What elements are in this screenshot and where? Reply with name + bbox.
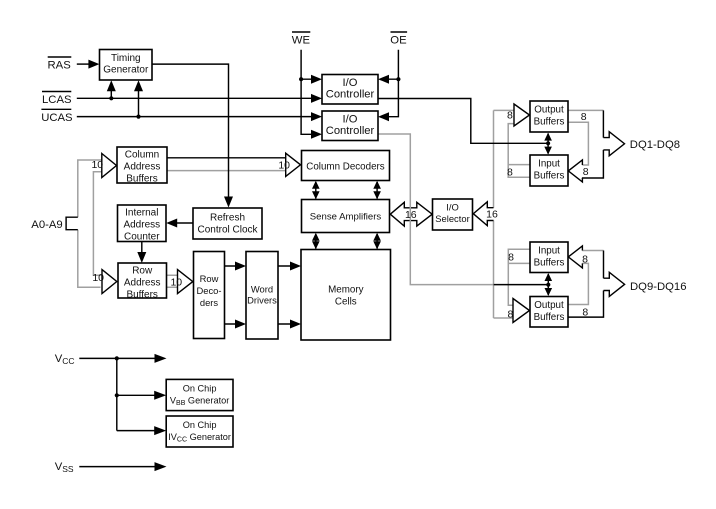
block memory cells (301, 250, 391, 341)
svg-text:Timing: Timing (111, 53, 141, 64)
arrowhead RAS into timing generator (88, 60, 99, 69)
svg-text:Address: Address (124, 161, 161, 172)
wire DQ1-DQ8 stems (582, 110, 604, 178)
block refresh control clock (193, 208, 262, 239)
wire bus to bottom output buffers (494, 317, 514, 319)
svg-text:8: 8 (582, 253, 588, 265)
svg-text:8: 8 (581, 111, 587, 123)
block output buffers top (530, 101, 568, 132)
arrowhead WE into I/O controller 2 (311, 130, 322, 139)
bus arrow 16 between Sense Amplifiers and I/O Selector (390, 202, 432, 226)
block on chip IVCC generator (166, 416, 233, 447)
wire A0-A9 bus inner (93, 172, 102, 276)
svg-text:Deco-: Deco- (196, 285, 221, 296)
arrowhead row decoders into word drivers lower (235, 320, 246, 329)
wire LCAS line (77, 91, 312, 98)
bus arrow 8 into top output buffers (514, 104, 530, 126)
svg-text:10: 10 (91, 159, 103, 171)
double arrowheads column decoders / sense amplifiers right (373, 181, 381, 189)
svg-text:Cells: Cells (335, 297, 357, 308)
arrowhead VCC into IVCC generator (154, 426, 166, 435)
svg-text:I/O: I/O (446, 201, 459, 212)
svg-text:Memory: Memory (328, 285, 363, 296)
pin arrow DQ1-DQ8 (603, 132, 624, 156)
svg-text:10: 10 (170, 276, 182, 288)
arrowhead UCAS into timing generator (134, 80, 143, 91)
svg-text:8: 8 (582, 307, 588, 319)
svg-text:8: 8 (508, 252, 514, 264)
wire DQ9-DQ16 stems (568, 251, 604, 318)
block output buffers bottom (530, 297, 568, 328)
block internal address counter (118, 205, 167, 242)
bus arrow 10 into row decoders (178, 270, 193, 294)
svg-text:UCAS: UCAS (41, 112, 73, 124)
wire VSS rail (79, 466, 155, 468)
block column address buffers (117, 147, 167, 183)
double arrowheads top buffer pair (544, 133, 552, 141)
block input buffers bottom (530, 242, 568, 273)
svg-text:8: 8 (507, 110, 513, 122)
svg-text:DQ9-DQ16: DQ9-DQ16 (630, 281, 687, 293)
wire refresh control clock to internal address counter (176, 222, 193, 224)
svg-text:Word: Word (251, 284, 273, 295)
wire OE line (388, 50, 398, 117)
svg-text:10: 10 (278, 160, 290, 172)
arrowhead OE into I/O controller 1 (378, 75, 389, 84)
arrowhead internal address counter into row address buffers (137, 252, 146, 263)
junction dot WE branch (299, 77, 303, 81)
svg-text:On Chip: On Chip (183, 420, 217, 430)
wire I/O controller 1 output (378, 99, 548, 144)
block word drivers (246, 252, 278, 340)
wire bottom output buffers loopback (568, 263, 588, 304)
svg-text:Control Clock: Control Clock (197, 224, 258, 235)
svg-text:Output: Output (534, 105, 564, 116)
svg-text:Sense Amplifiers: Sense Amplifiers (310, 212, 382, 223)
junction dot VCC lower (115, 393, 119, 397)
bus arrow 10 into column decoders (286, 153, 301, 176)
junction dot UCAS branch (136, 115, 140, 119)
wire row address bus edges (167, 275, 178, 287)
double arrowheads bottom buffer pair (545, 273, 553, 281)
bus arrow 10 into row address buffers (102, 270, 117, 294)
svg-text:Controller: Controller (326, 125, 375, 137)
svg-text:8: 8 (507, 308, 513, 320)
junction dot top buffer control (546, 141, 550, 145)
svg-text:On Chip: On Chip (183, 383, 217, 393)
block I/O controller 1 (322, 75, 378, 105)
bus arrow 10 into column address buffers (102, 154, 117, 178)
svg-text:Buffers: Buffers (126, 173, 158, 184)
double arrowheads sense amplifiers / memory cells left (312, 233, 320, 241)
arrowhead OE into I/O controller 2 (378, 112, 389, 121)
svg-text:8: 8 (583, 166, 589, 178)
svg-text:Buffers: Buffers (534, 312, 565, 323)
wire to bottom buffer pair junction (494, 284, 549, 286)
wire WE line (301, 50, 312, 135)
block row decoders (194, 252, 225, 339)
bus arrow 8 into top input buffers (568, 160, 582, 182)
block I/O controller 2 (322, 111, 378, 141)
block row address buffers (118, 263, 167, 298)
svg-text:Column Decoders: Column Decoders (306, 161, 385, 172)
wire tap to bottom input buffers (508, 249, 529, 305)
svg-text:Counter: Counter (124, 231, 160, 242)
wire double arrow shaft top buffers (547, 134, 549, 154)
arrowhead LCAS into timing generator (107, 80, 116, 91)
svg-text:Buffers: Buffers (534, 258, 565, 269)
wire column address bus upper edge (167, 157, 286, 159)
arrowhead WE into I/O controller 1 (311, 75, 322, 84)
svg-text:Column: Column (125, 149, 159, 160)
arrowhead timing generator into refresh control clock (224, 197, 233, 208)
wire row decoders to word drivers (225, 266, 237, 324)
svg-text:Drivers: Drivers (247, 295, 277, 306)
wire RAS input (77, 63, 89, 65)
wire tap to top input buffers (508, 124, 529, 178)
bus arrow 8 into bottom input buffers (568, 246, 582, 268)
wire double arrow shafts sense amplifiers / memory cells (316, 234, 377, 249)
wire double arrow shaft bottom buffers (547, 274, 549, 295)
wire bus to top output buffers (494, 109, 515, 111)
block column decoders (302, 151, 390, 181)
svg-text:16: 16 (486, 209, 498, 221)
arrowhead word drivers into memory cells lower (290, 320, 301, 329)
wire double arrow shafts column decoders / sense amplifiers (316, 182, 377, 199)
bus arrow 16 into I/O selector right (473, 202, 493, 226)
svg-text:Buffers: Buffers (126, 289, 158, 300)
wire internal address counter to row address buffers (141, 242, 143, 254)
arrowhead word drivers into memory cells upper (290, 262, 301, 271)
arrowhead VCC rail (155, 354, 167, 363)
svg-text:ders: ders (200, 297, 219, 308)
wire UCAS line (77, 91, 312, 117)
bus arrow 8 into bottom output buffers (513, 299, 530, 323)
svg-text:Output: Output (534, 300, 564, 311)
double arrowheads column decoders / sense amplifiers left (312, 181, 320, 189)
svg-text:RAS: RAS (48, 59, 72, 71)
svg-text:I/O: I/O (343, 114, 358, 126)
svg-text:10: 10 (92, 272, 104, 284)
svg-text:Selector: Selector (435, 213, 469, 224)
svg-text:Buffers: Buffers (534, 117, 565, 128)
svg-text:OE: OE (390, 35, 407, 47)
svg-text:16: 16 (405, 209, 417, 221)
svg-text:Controller: Controller (326, 89, 375, 101)
svg-text:8: 8 (507, 166, 513, 178)
arrowhead refresh clock into internal address counter (166, 219, 177, 228)
wire VCC rail (79, 358, 155, 430)
junction dot OE branch (396, 77, 400, 81)
svg-text:Generator: Generator (103, 65, 149, 76)
svg-text:Row: Row (132, 265, 153, 276)
arrowhead VCC into VBB generator (154, 391, 166, 400)
arrowhead LCAS into I/O controller 1 (311, 94, 322, 103)
svg-text:DQ1-DQ8: DQ1-DQ8 (630, 139, 680, 151)
svg-text:Input: Input (538, 246, 560, 257)
junction dot LCAS branch (109, 96, 113, 100)
wire word drivers to memory cells (278, 266, 291, 324)
wire bottom input buffers from DQ (582, 250, 603, 252)
svg-text:Address: Address (123, 219, 160, 230)
pin arrow DQ9-DQ16 (604, 272, 625, 296)
svg-text:A0-A9: A0-A9 (31, 219, 62, 231)
junction dot VCC upper (115, 356, 119, 360)
svg-text:Buffers: Buffers (534, 171, 565, 182)
svg-text:I/O: I/O (343, 77, 358, 89)
node A0-A9 entry notch (66, 217, 78, 230)
wire A0-A9 bus outer (78, 160, 102, 287)
block on chip VBB generator (166, 379, 233, 410)
svg-text:Address: Address (124, 277, 161, 288)
svg-text:WE: WE (292, 35, 311, 47)
wire top output buffers loopback (568, 122, 588, 165)
arrowhead row decoders into word drivers upper (235, 262, 246, 271)
block sense amplifiers (302, 200, 390, 233)
wire right data bus vertical (493, 110, 495, 318)
wire I/O controller 2 output (378, 134, 494, 285)
svg-text:Row: Row (200, 273, 219, 284)
wire timing generator to refresh control clock (152, 64, 229, 198)
arrowhead UCAS into I/O controller 2 (311, 112, 322, 121)
svg-text:Internal: Internal (125, 207, 158, 218)
svg-text:LCAS: LCAS (42, 94, 72, 106)
block input buffers top (530, 155, 568, 186)
arrowhead VSS rail (155, 462, 167, 471)
double arrowheads sense amplifiers / memory cells right (373, 233, 381, 241)
junction dot bottom buffer control (546, 283, 550, 287)
wire column address bus lower edge (167, 170, 286, 172)
block I/O selector (433, 199, 473, 230)
block timing generator (100, 50, 153, 81)
svg-text:Refresh: Refresh (210, 213, 245, 224)
svg-text:Input: Input (538, 159, 560, 170)
wire top output buffers to DQ (568, 109, 603, 111)
